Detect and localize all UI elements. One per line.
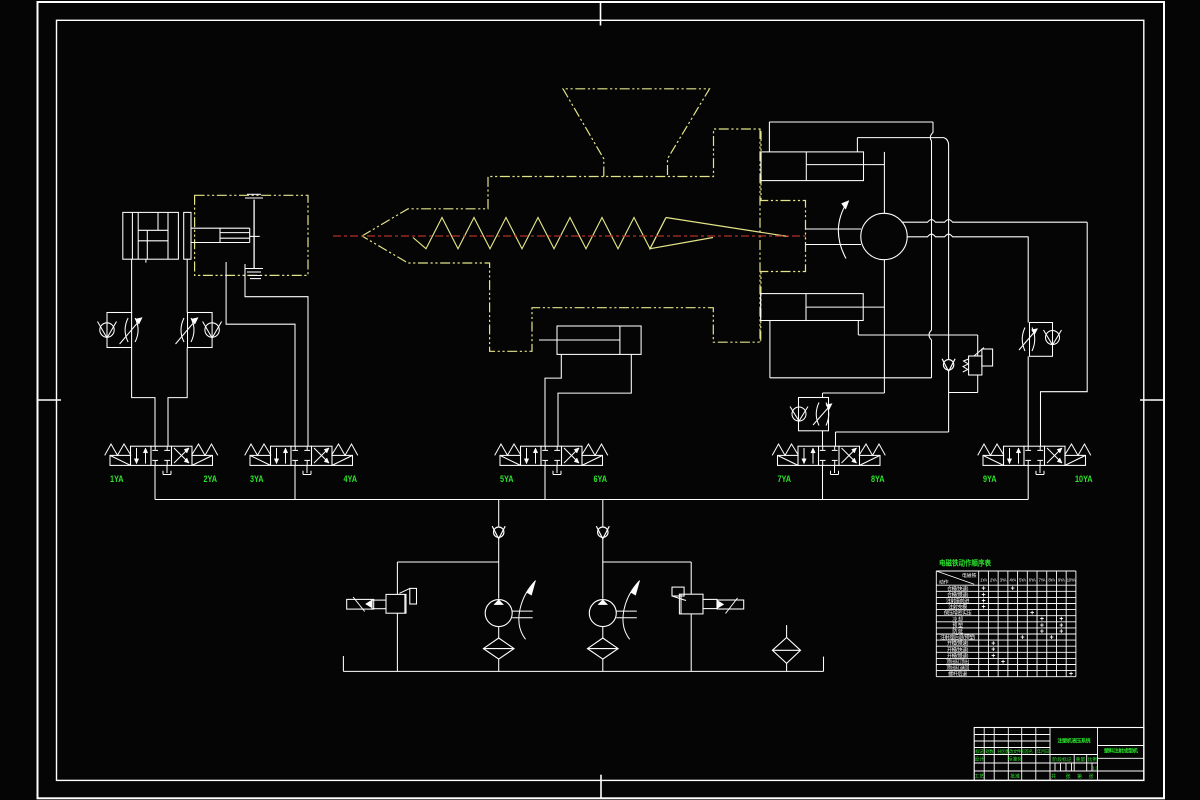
svg-text:4YA: 4YA xyxy=(1009,577,1016,582)
svg-text:+: + xyxy=(1020,634,1024,641)
relief1 pilot line xyxy=(397,561,498,563)
svg-text:顶出缸顶出: 顶出缸顶出 xyxy=(946,658,969,665)
svg-text:+: + xyxy=(1040,628,1044,635)
svg-text:7YA: 7YA xyxy=(778,474,792,484)
svg-text:2YA: 2YA xyxy=(990,577,997,582)
svg-text:第: 第 xyxy=(1077,773,1082,780)
svg-text:冷 却: 冷 却 xyxy=(952,616,963,623)
svg-text:1:1: 1:1 xyxy=(1092,765,1099,770)
svg-text:防 延: 防 延 xyxy=(952,628,963,635)
wire flow V1 to valve1 A xyxy=(132,348,155,447)
svg-text:7YA: 7YA xyxy=(1039,577,1046,582)
P drop valve4 xyxy=(822,465,824,499)
directional valve 5YA/6YA xyxy=(495,444,608,465)
svg-text:塑料注射成型机: 塑料注射成型机 xyxy=(1104,747,1139,755)
svg-text:+: + xyxy=(1011,586,1015,593)
svg-text:动作: 动作 xyxy=(939,579,949,586)
svg-text:张: 张 xyxy=(1065,773,1070,780)
motor lower port line xyxy=(907,234,1029,237)
svg-text:8YA: 8YA xyxy=(1048,577,1055,582)
svg-text:4YA: 4YA xyxy=(344,474,358,484)
svg-text:+: + xyxy=(1001,659,1005,666)
wire clamp B down xyxy=(186,259,188,312)
one-way throttle valve V4 xyxy=(799,398,829,431)
svg-text:共: 共 xyxy=(1051,773,1056,780)
svg-text:标记: 标记 xyxy=(975,748,984,755)
wire flow V2 to valve1 B xyxy=(168,348,187,447)
mold area box (yellow phantom) xyxy=(195,195,308,275)
tank port symbol xyxy=(303,465,311,474)
P drop valve3 xyxy=(544,465,546,499)
top cylinder rod xyxy=(806,164,884,166)
motor upper port line xyxy=(902,220,1088,223)
directional valve 9YA/10YA xyxy=(978,444,1091,465)
wire throttle V4 to valve4 A xyxy=(822,431,824,446)
svg-text:9YA: 9YA xyxy=(983,474,997,484)
svg-text:顶出缸退回: 顶出缸退回 xyxy=(946,665,969,672)
wire throttle to valve5 A xyxy=(1027,356,1029,446)
wire mold A to valve2 A xyxy=(226,262,295,446)
wire mold B to valve2 B xyxy=(245,264,308,446)
svg-text:+: + xyxy=(1069,671,1073,678)
border tick right xyxy=(1140,399,1164,401)
clamp piston rod xyxy=(191,227,250,229)
sequence table grid xyxy=(936,570,1076,572)
tank return line xyxy=(343,670,823,672)
svg-text:+: + xyxy=(991,653,995,660)
svg-text:处数: 处数 xyxy=(985,748,994,755)
directional valve 1YA/2YA xyxy=(105,444,218,465)
wire motor upper to valve5 B xyxy=(1041,222,1088,446)
sequence valve check xyxy=(942,359,955,372)
border tick left xyxy=(38,399,62,401)
svg-text:注射座后退(预塑): 注射座后退(预塑) xyxy=(940,634,975,641)
svg-text:3YA: 3YA xyxy=(250,474,264,484)
one-way flow control V1 (clamp A) xyxy=(107,313,132,348)
svg-text:张: 张 xyxy=(1088,773,1093,780)
svg-text:10YA: 10YA xyxy=(1075,474,1093,484)
svg-text:预 塑: 预 塑 xyxy=(952,622,963,629)
pump unit 1 xyxy=(483,581,535,672)
svg-text:年月日: 年月日 xyxy=(1037,748,1049,755)
svg-text:开模(快速): 开模(快速) xyxy=(947,646,969,653)
svg-text:2YA: 2YA xyxy=(204,474,218,484)
wire inj cyl A to valve3 A xyxy=(545,354,561,446)
wire left chambers bottom xyxy=(769,321,771,378)
svg-text:1YA: 1YA xyxy=(110,474,124,484)
moving platen bar xyxy=(253,200,255,269)
screw end taper top xyxy=(666,218,788,237)
relief valve 1 xyxy=(347,599,374,609)
svg-text:设计: 设计 xyxy=(974,756,984,763)
svg-text:10YA: 10YA xyxy=(1067,577,1076,582)
svg-text:5YA: 5YA xyxy=(1019,577,1026,582)
border tick top xyxy=(600,2,602,26)
svg-text:合模(慢速): 合模(慢速) xyxy=(947,591,969,598)
svg-text:6YA: 6YA xyxy=(1029,577,1036,582)
relief2 pilot line xyxy=(603,561,691,563)
svg-text:6YA: 6YA xyxy=(594,474,608,484)
motor shaft lines xyxy=(806,228,862,230)
svg-text:+: + xyxy=(1059,628,1063,635)
pressure bus line xyxy=(155,499,1028,501)
P drop valve2 xyxy=(294,465,296,499)
anchor bar bottom xyxy=(883,260,885,393)
border tick bottom xyxy=(600,775,602,799)
P drop valve1 xyxy=(154,465,156,499)
svg-text:阶段标记: 阶段标记 xyxy=(1052,756,1071,763)
svg-text:+: + xyxy=(982,604,986,611)
injection cylinder rod xyxy=(539,339,620,341)
svg-text:比例: 比例 xyxy=(1087,756,1097,763)
wire clamp A down xyxy=(131,259,133,312)
injection cylinder xyxy=(557,326,641,354)
relief valve 2 xyxy=(679,594,703,614)
hopper (yellow phantom) xyxy=(563,89,710,177)
pump unit 2 xyxy=(588,581,640,672)
clamp rod flange plate xyxy=(184,212,191,259)
svg-text:电磁铁: 电磁铁 xyxy=(962,572,977,579)
one-way throttle valve V3 xyxy=(1030,323,1053,357)
directional valve 3YA/4YA xyxy=(245,444,358,465)
carriage frame edge (yellow phantom) xyxy=(759,129,761,342)
wire inj cyl B to valve3 B xyxy=(558,354,631,446)
svg-text:开模(慢速): 开模(慢速) xyxy=(947,640,969,647)
one-way flow control V2 (clamp B) xyxy=(188,313,213,348)
svg-text:注射座前进: 注射座前进 xyxy=(946,597,969,604)
svg-text:合模(快速): 合模(快速) xyxy=(947,585,969,592)
seq check wire xyxy=(948,335,950,359)
sequence valve body xyxy=(949,334,978,336)
red centreline xyxy=(333,235,806,237)
svg-text:8YA: 8YA xyxy=(871,474,885,484)
anchor bar top xyxy=(883,152,885,213)
svg-text:标准化: 标准化 xyxy=(1008,756,1023,763)
wire motor lower to throttle xyxy=(1027,237,1029,323)
check valve pump1 xyxy=(498,500,500,527)
carriage cylinder top xyxy=(761,152,864,181)
screw end taper bottom xyxy=(650,218,713,249)
wire bottom cyl B xyxy=(857,321,859,336)
svg-text:更改文件号: 更改文件号 xyxy=(1005,748,1025,755)
tank port symbol xyxy=(163,465,171,474)
svg-text:批准: 批准 xyxy=(1010,773,1020,780)
directional valve 7YA/8YA xyxy=(772,444,885,465)
svg-text:签名: 签名 xyxy=(1025,748,1033,755)
svg-text:螺杆后退: 螺杆后退 xyxy=(948,671,967,678)
svg-text:5YA: 5YA xyxy=(500,474,514,484)
wire top cyl B xyxy=(856,138,858,152)
P drop valve5 xyxy=(1027,465,1029,499)
wire top cyl A (left chambers loop) xyxy=(768,122,770,152)
svg-text:1YA: 1YA xyxy=(980,577,987,582)
tank port symbol xyxy=(553,465,561,474)
svg-text:9YA: 9YA xyxy=(1058,577,1065,582)
bottom cylinder rod xyxy=(806,306,884,308)
title block xyxy=(974,728,1144,781)
svg-text:电磁铁动作顺序表: 电磁铁动作顺序表 xyxy=(939,558,991,568)
hydraulic motor xyxy=(861,213,907,259)
svg-text:工艺: 工艺 xyxy=(974,774,984,780)
svg-text:保压增密实压: 保压增密实压 xyxy=(944,610,972,617)
svg-text:注塑机液压系统: 注塑机液压系统 xyxy=(1057,737,1090,744)
wire seq to valve4 B xyxy=(836,431,949,433)
clamp block bottom stub xyxy=(145,259,147,263)
screw flights (yellow) xyxy=(413,218,666,249)
svg-text:+: + xyxy=(1050,634,1054,641)
clamp cylinder block xyxy=(123,212,179,259)
machine barrel outline (yellow phantom) xyxy=(362,129,806,351)
svg-text:+: + xyxy=(1030,610,1034,617)
svg-text:注射充模: 注射充模 xyxy=(948,604,967,611)
tank port symbol xyxy=(831,465,839,474)
svg-text:3YA: 3YA xyxy=(1000,577,1007,582)
return filter xyxy=(786,625,788,637)
carriage cylinder bottom xyxy=(761,294,864,321)
wire motor bottom to throttle V4 xyxy=(823,392,885,394)
motor rotation arrow xyxy=(838,202,847,259)
check valve pump2 xyxy=(602,500,604,527)
svg-text:重量: 重量 xyxy=(1076,756,1086,763)
tank port symbol xyxy=(1036,465,1044,474)
svg-text:开模(慢速): 开模(慢速) xyxy=(947,652,969,659)
